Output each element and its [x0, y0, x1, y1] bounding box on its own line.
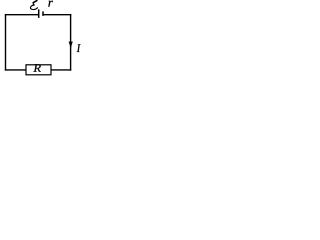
current arrowhead pointing down on right wire	[69, 42, 73, 49]
battery cell long plate (left)	[38, 9, 40, 18]
label R (load resistance)	[33, 64, 40, 71]
wire left side, top-left corner to bottom-left corner	[5, 14, 7, 71]
battery cell short plate (right)	[42, 11, 44, 16]
resistor box R	[26, 65, 51, 75]
wire top side, battery long plate to top-left corner	[5, 14, 39, 16]
wire bottom-left, corner to resistor box left terminal	[5, 69, 26, 71]
label EMF script-E	[30, 0, 37, 10]
wire top side, battery short plate to top-right corner	[43, 14, 71, 16]
label r (internal resistance)	[48, 1, 52, 7]
wire right side, top-right corner to bottom-right corner (carries current I)	[70, 14, 72, 71]
wire bottom-right, resistor box right terminal to corner	[51, 69, 71, 71]
label I (current)	[77, 44, 81, 52]
